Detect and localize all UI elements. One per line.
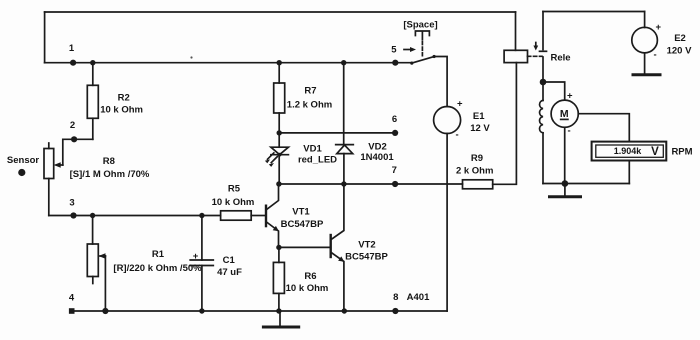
wire: node 1 rail xyxy=(45,62,395,64)
svg-text:Sensor: Sensor xyxy=(7,155,40,166)
resistor R9 xyxy=(456,63,516,189)
wire: switch contact to E1 top xyxy=(434,57,447,107)
svg-text:E2: E2 xyxy=(674,33,686,44)
junction: contact / coil / motor xyxy=(540,79,565,100)
node 3 xyxy=(69,198,76,219)
svg-text:-: - xyxy=(654,50,657,61)
wire: node 2 horizontal to R8 wiper xyxy=(63,139,93,165)
svg-text:A401: A401 xyxy=(407,292,430,303)
Sensor label xyxy=(7,155,40,176)
node 7 xyxy=(392,165,399,187)
svg-text:VD1: VD1 xyxy=(303,144,322,155)
svg-text:+: + xyxy=(457,99,463,110)
svg-text:[S]/1 M Ohm /70%: [S]/1 M Ohm /70% xyxy=(70,169,150,180)
wire: top rail xyxy=(45,11,516,13)
meter RPM display xyxy=(592,142,693,184)
LED VD1 xyxy=(265,133,337,184)
wire: motor right to meter top xyxy=(578,114,629,142)
wire: node 7 line xyxy=(279,183,463,185)
node 5 xyxy=(391,45,398,66)
svg-text:Rele: Rele xyxy=(550,53,570,64)
svg-text:red_LED: red_LED xyxy=(298,155,337,166)
svg-text:+: + xyxy=(656,22,662,33)
svg-text:BC547BP: BC547BP xyxy=(345,252,388,263)
svg-text:RPM: RPM xyxy=(671,147,692,158)
source E2 xyxy=(632,22,692,61)
svg-text:7: 7 xyxy=(392,165,397,176)
svg-text:[R]/220 k Ohm /50%: [R]/220 k Ohm /50% xyxy=(113,263,202,274)
svg-text:[Space]: [Space] xyxy=(403,20,437,31)
svg-text:BC547BP: BC547BP xyxy=(281,219,324,230)
svg-text:4: 4 xyxy=(69,293,75,304)
scan speck xyxy=(190,56,192,58)
node 2 xyxy=(70,120,77,142)
diode VD2 xyxy=(336,142,395,185)
wire: E2 top lead xyxy=(644,12,646,28)
svg-text:R6: R6 xyxy=(304,271,316,282)
relay contact actuation arrow xyxy=(533,43,538,51)
resistor R7 xyxy=(274,63,333,133)
junction: C1 top xyxy=(199,213,204,218)
svg-text:2 k Ohm: 2 k Ohm xyxy=(456,165,494,176)
junction: VT1 emitter / R6 / VT2 base xyxy=(276,245,330,250)
wire: node 3 line xyxy=(49,215,221,217)
svg-text:R8: R8 xyxy=(103,156,115,167)
relay contact xyxy=(540,12,547,83)
svg-text:+: + xyxy=(567,91,573,102)
terminal square (left end of bottom rail) xyxy=(69,308,75,314)
svg-text:VT1: VT1 xyxy=(292,207,310,218)
source E1 xyxy=(434,99,491,141)
junction: R6 bottom / ground xyxy=(276,308,281,313)
wire: E1 bottom to bottom rail corner xyxy=(446,134,448,312)
svg-text:5: 5 xyxy=(391,45,397,56)
arrow after node 5 label xyxy=(404,47,416,52)
svg-text:1.904k: 1.904k xyxy=(614,146,643,156)
junction: VT2 emitter xyxy=(342,308,347,313)
relay coil box (Rele) xyxy=(504,12,570,64)
junction: R2 top xyxy=(90,60,95,65)
wire: right circuit bottom xyxy=(543,183,629,185)
node 6 xyxy=(392,114,398,136)
resistor R2 xyxy=(87,63,143,140)
svg-text:12 V: 12 V xyxy=(470,123,490,134)
svg-text:120 V: 120 V xyxy=(667,46,692,57)
node 8 xyxy=(392,292,398,314)
svg-text:6: 6 xyxy=(392,114,397,125)
junction: R1 top xyxy=(90,213,95,218)
ground under E2 xyxy=(633,53,660,75)
junction: R7 top xyxy=(277,60,282,65)
node 1 xyxy=(69,43,76,66)
junction: VD2 branch at node 1 rail xyxy=(341,60,346,65)
resistor R5 xyxy=(212,184,265,221)
inductor (motor field coil) xyxy=(540,82,543,184)
svg-text:VT2: VT2 xyxy=(358,240,375,251)
transistor VT2 xyxy=(331,184,389,311)
junction: C1 bottom xyxy=(199,308,204,313)
transistor VT1 xyxy=(266,184,324,247)
svg-text:V: V xyxy=(651,146,659,158)
svg-text:10 k Ohm: 10 k Ohm xyxy=(100,105,143,116)
svg-text:10 k Ohm: 10 k Ohm xyxy=(212,197,255,208)
switch [Space] xyxy=(395,20,437,65)
svg-text:E1: E1 xyxy=(473,111,485,122)
svg-text:R1: R1 xyxy=(152,249,165,260)
svg-text:C1: C1 xyxy=(223,255,236,266)
junction: VD2 bottom / VT2 collector xyxy=(341,181,346,186)
svg-text:10 k Ohm: 10 k Ohm xyxy=(286,283,329,294)
junction: VD1 top xyxy=(277,130,282,135)
ground under motor xyxy=(550,184,581,197)
svg-text:1: 1 xyxy=(69,43,75,54)
svg-text:R7: R7 xyxy=(304,86,316,97)
svg-text:-: - xyxy=(456,130,459,141)
svg-text:+: + xyxy=(193,251,199,262)
svg-text:3: 3 xyxy=(69,198,74,209)
wire: left vertical (top rail to node 1 rail) xyxy=(44,12,46,63)
svg-text:47 uF: 47 uF xyxy=(217,267,242,278)
svg-text:8: 8 xyxy=(393,292,398,303)
junction: motor bottom / ground xyxy=(562,180,569,187)
wire: bottom rail xyxy=(72,310,447,312)
wire: node 6 line xyxy=(279,132,395,134)
svg-text:1.2 k Ohm: 1.2 k Ohm xyxy=(287,100,332,111)
resistor R6 xyxy=(273,247,328,311)
node 4 xyxy=(69,293,109,315)
potentiometer R8 xyxy=(44,143,150,216)
svg-text:-: - xyxy=(568,126,571,137)
ground (bottom center) xyxy=(263,311,298,327)
potentiometer R1 xyxy=(87,216,202,312)
svg-text:R9: R9 xyxy=(471,153,483,164)
wire: VD2 branch vertical xyxy=(343,63,345,145)
wire: right circuit top rail xyxy=(543,11,645,13)
svg-text:R5: R5 xyxy=(228,184,241,195)
svg-text:R2: R2 xyxy=(118,93,130,104)
svg-text:M: M xyxy=(560,108,569,120)
motor M xyxy=(551,91,578,184)
junction: VD1 bottom / VT1 collector xyxy=(276,181,281,186)
svg-text:1N4001: 1N4001 xyxy=(360,152,394,163)
svg-text:2: 2 xyxy=(70,120,75,131)
capacitor C1 xyxy=(190,216,242,312)
svg-text:VD2: VD2 xyxy=(368,142,386,153)
